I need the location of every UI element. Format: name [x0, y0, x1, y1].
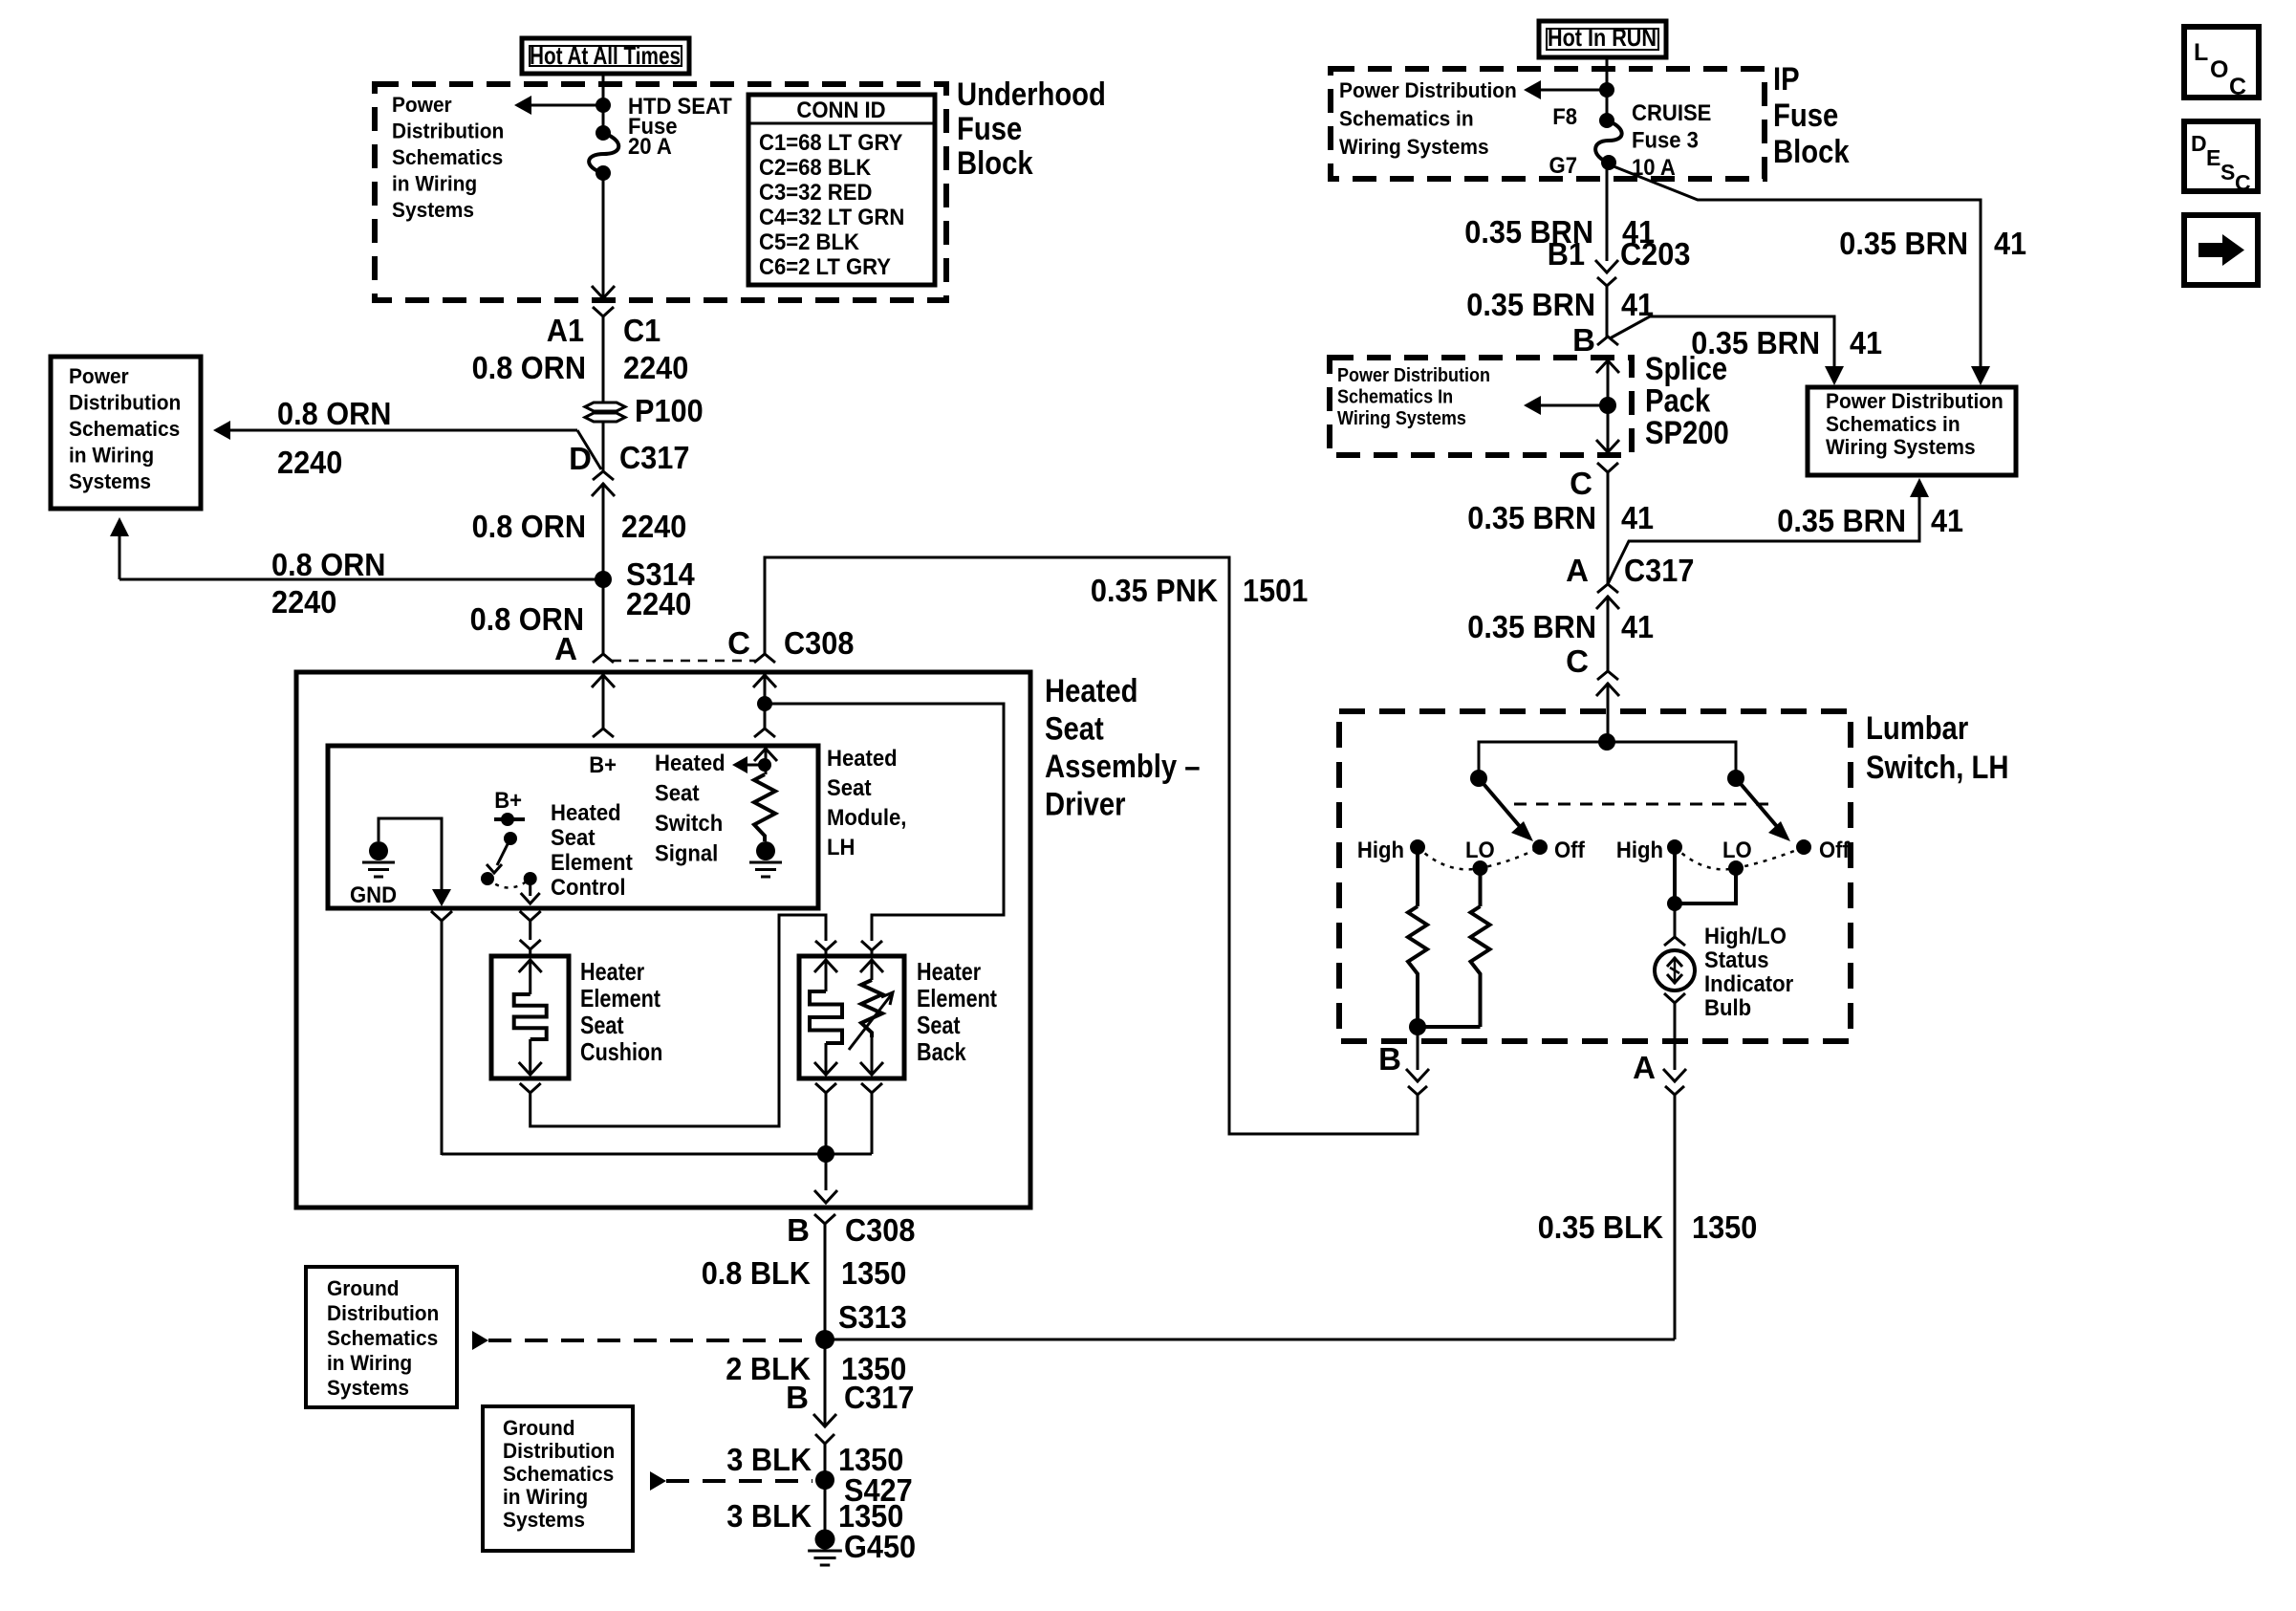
LO resistor [1479, 868, 1483, 906]
Underhood Fuse Block dashed box [375, 84, 946, 300]
connector C exit [1597, 463, 1618, 472]
splice S314 [595, 571, 612, 588]
svg-text:GND: GND [350, 882, 397, 908]
Heated Seat Assembly box [296, 672, 1030, 1208]
seat back heater element [814, 960, 837, 972]
splice P100 [585, 403, 625, 411]
Power Distribution box (right) [1808, 387, 2016, 475]
connector lumbar B [1406, 1069, 1429, 1081]
svg-text:Schematics in: Schematics in [1339, 107, 1474, 131]
LOC box [2184, 27, 2259, 98]
svg-text:0.8 ORN: 0.8 ORN [472, 509, 586, 544]
Ground Distribution box 2 [483, 1406, 633, 1551]
seat back outputs to return bus [815, 1083, 836, 1093]
svg-text:Ground: Ground [503, 1416, 575, 1440]
svg-text:High: High [1616, 838, 1663, 863]
connector C317 inline [593, 471, 614, 480]
svg-text:0.8 BLK: 0.8 BLK [702, 1255, 811, 1291]
svg-text:20 A: 20 A [628, 134, 672, 160]
svg-text:C3=32 RED: C3=32 RED [759, 180, 872, 206]
svg-text:Splice: Splice [1645, 351, 1727, 387]
wire S314 down to C308 [602, 579, 605, 654]
svg-text:B: B [1572, 322, 1595, 358]
svg-text:2240: 2240 [277, 445, 342, 480]
node return bus [817, 1145, 834, 1163]
svg-text:in Wiring: in Wiring [503, 1485, 588, 1509]
node (branch to power distribution) [596, 98, 611, 113]
svg-text:Fuse 3: Fuse 3 [1632, 128, 1699, 154]
svg-text:Underhood: Underhood [957, 76, 1106, 113]
svg-text:G450: G450 [844, 1529, 916, 1564]
High/LO Status Indicator Bulb [1655, 950, 1695, 991]
svg-text:LO: LO [1465, 838, 1495, 863]
module internal resistor [754, 774, 775, 841]
svg-text:Cushion: Cushion [580, 1037, 662, 1066]
IP Fuse Block dashed box [1331, 69, 1765, 179]
svg-text:Element: Element [551, 850, 633, 876]
svg-text:Hot In RUN: Hot In RUN [1548, 23, 1657, 52]
svg-text:Heated: Heated [1045, 673, 1138, 709]
svg-text:F8: F8 [1552, 104, 1577, 130]
arrow box [2184, 215, 2258, 285]
svg-text:Off: Off [1554, 838, 1586, 863]
svg-text:C4=32 LT GRN: C4=32 LT GRN [759, 205, 904, 230]
svg-text:Switch, LH: Switch, LH [1866, 750, 2009, 786]
svg-text:Back: Back [917, 1037, 966, 1066]
svg-text:0.35 BRN: 0.35 BRN [1839, 226, 1968, 261]
dashed link to S427 [650, 1471, 666, 1491]
svg-text:High: High [1357, 838, 1404, 863]
svg-text:1350: 1350 [1692, 1209, 1757, 1245]
return bus [442, 1153, 872, 1156]
wire 0.35 PNK 1501 [765, 557, 1418, 1134]
svg-text:0.8 ORN: 0.8 ORN [271, 547, 385, 582]
svg-text:Systems: Systems [69, 469, 151, 493]
svg-text:S313: S313 [838, 1299, 907, 1335]
svg-text:Seat: Seat [1045, 711, 1104, 748]
svg-text:LH: LH [827, 835, 855, 860]
svg-text:B: B [787, 1212, 810, 1248]
node branch left [1599, 82, 1614, 98]
svg-text:Wiring Systems: Wiring Systems [1339, 135, 1489, 159]
svg-text:B+: B+ [494, 788, 522, 814]
gang dashed link [1514, 803, 1774, 806]
svg-text:L: L [2194, 39, 2208, 66]
svg-text:C: C [1566, 643, 1589, 679]
svg-text:Distribution: Distribution [503, 1439, 615, 1463]
svg-text:2240: 2240 [621, 509, 686, 544]
svg-text:A: A [1633, 1050, 1656, 1085]
svg-text:Schematics in: Schematics in [1826, 412, 1960, 436]
svg-text:Signal: Signal [655, 841, 718, 867]
connector C317 inline (right) [1597, 584, 1618, 593]
svg-text:B: B [1378, 1041, 1401, 1077]
svg-text:C: C [727, 625, 750, 661]
svg-text:C317: C317 [844, 1380, 914, 1415]
cushion to seat back series link [520, 1083, 541, 1093]
svg-text:Schematics: Schematics [392, 145, 503, 169]
svg-text:E: E [2206, 145, 2220, 170]
wire B exit [1417, 1027, 1419, 1070]
right switch pivot [1727, 770, 1744, 787]
svg-text:Block: Block [957, 145, 1033, 182]
wire from Hot At All Times into fuse [602, 74, 605, 131]
fuse CRUISE Fuse 3 10A [1599, 113, 1614, 128]
svg-text:Seat: Seat [551, 825, 596, 851]
svg-text:Heater: Heater [917, 957, 981, 986]
svg-text:0.35 BLK: 0.35 BLK [1538, 1209, 1663, 1245]
wire P100 to C317 [602, 422, 605, 471]
svg-text:1501: 1501 [1243, 573, 1308, 608]
svg-text:Schematics: Schematics [69, 417, 180, 441]
module internal ground [756, 841, 775, 860]
wire branch left with arrow [531, 104, 603, 107]
svg-text:in Wiring: in Wiring [392, 172, 477, 196]
Power Distribution box (left) [51, 357, 201, 509]
svg-text:Power Distribution: Power Distribution [1339, 78, 1517, 102]
svg-text:Power Distribution: Power Distribution [1337, 365, 1490, 386]
svg-text:D: D [2191, 131, 2207, 156]
svg-text:Power Distribution: Power Distribution [1826, 389, 2004, 413]
fuse HTD SEAT 20A [596, 125, 611, 141]
svg-text:Indicator: Indicator [1704, 971, 1793, 997]
DESC box [2184, 121, 2258, 191]
svg-text:S: S [2220, 160, 2235, 185]
svg-text:C308: C308 [845, 1212, 915, 1248]
svg-text:Schematics: Schematics [327, 1326, 438, 1350]
svg-text:2240: 2240 [271, 584, 336, 620]
node branch to seat back feed [757, 696, 772, 711]
svg-text:2240: 2240 [623, 350, 688, 385]
svg-text:Seat: Seat [917, 1011, 961, 1039]
svg-text:41: 41 [1850, 325, 1882, 360]
svg-text:B: B [786, 1380, 809, 1415]
wire S313 to lumbar A [825, 1339, 1675, 1341]
svg-text:Schematics: Schematics [503, 1462, 614, 1486]
svg-text:B+: B+ [589, 752, 617, 778]
svg-text:Control: Control [551, 875, 626, 901]
svg-text:C2=68 BLK: C2=68 BLK [759, 155, 872, 181]
svg-text:SP200: SP200 [1645, 415, 1729, 451]
svg-text:Seat: Seat [580, 1011, 624, 1039]
connectors into seat back element [815, 941, 836, 950]
wire G7 down to C203 [1606, 164, 1609, 261]
svg-text:Ground: Ground [327, 1276, 400, 1300]
svg-text:Block: Block [1773, 134, 1850, 170]
svg-text:Distribution: Distribution [69, 391, 181, 415]
CONN ID table [748, 95, 935, 285]
connector lumbar A [1663, 1069, 1686, 1081]
splice S313 [815, 1330, 834, 1349]
svg-text:3 BLK: 3 BLK [726, 1442, 812, 1477]
svg-text:Systems: Systems [327, 1376, 409, 1400]
lumbar feed rail [1479, 742, 1736, 778]
wire S314 branch left to power dist [119, 578, 603, 581]
Ground Distribution box 1 [306, 1267, 457, 1407]
node resistor join [1409, 1018, 1426, 1035]
svg-text:O: O [2210, 56, 2228, 83]
svg-text:0.35 BRN: 0.35 BRN [1467, 609, 1596, 644]
svg-text:D: D [569, 441, 592, 476]
svg-text:Switch: Switch [655, 811, 723, 837]
svg-text:C317: C317 [619, 440, 689, 475]
svg-text:Seat: Seat [655, 781, 700, 807]
wire S313 down [824, 1339, 827, 1426]
splice S427 [815, 1470, 834, 1490]
svg-text:Element: Element [917, 984, 997, 1012]
svg-text:C1: C1 [623, 313, 661, 348]
svg-text:Systems: Systems [503, 1508, 585, 1532]
svg-text:41: 41 [1994, 226, 2026, 261]
svg-text:0.8 ORN: 0.8 ORN [472, 350, 586, 385]
svg-text:Systems: Systems [392, 198, 474, 222]
svg-text:CONN ID: CONN ID [796, 98, 885, 123]
svg-text:C6=2 LT GRY: C6=2 LT GRY [759, 254, 891, 280]
svg-text:Wiring Systems: Wiring Systems [1337, 408, 1466, 429]
node SP200 [1599, 397, 1616, 414]
connector into cushion element [520, 940, 541, 949]
svg-text:41: 41 [1621, 500, 1654, 535]
svg-text:C: C [2235, 170, 2251, 195]
left switch pivot [1470, 770, 1487, 787]
svg-text:C5=2 BLK: C5=2 BLK [759, 229, 860, 255]
svg-text:0.35 BRN: 0.35 BRN [1467, 500, 1596, 535]
module output pins [431, 911, 452, 921]
branch A-C317 to right power dist [1608, 490, 1919, 584]
Heater Element Seat Back box [799, 956, 904, 1078]
bulb output [1664, 993, 1685, 1003]
C308 dashed connector line [612, 660, 757, 663]
connector B female + branch right [1597, 337, 1618, 345]
svg-text:Heated: Heated [655, 751, 726, 776]
branch to power dist (D pin) [213, 421, 230, 440]
svg-text:Off: Off [1819, 838, 1851, 863]
svg-text:in Wiring: in Wiring [69, 444, 154, 468]
svg-text:Fuse: Fuse [957, 111, 1022, 147]
svg-text:41: 41 [1621, 609, 1654, 644]
Heated Seat Module box [328, 746, 818, 908]
svg-text:CRUISE: CRUISE [1632, 100, 1711, 126]
svg-text:A: A [1566, 553, 1589, 588]
wire A pin into module [592, 675, 615, 687]
svg-text:Status: Status [1704, 947, 1769, 973]
svg-text:Seat: Seat [827, 775, 872, 801]
svg-text:Power: Power [69, 364, 129, 388]
svg-text:C1=68 LT GRY: C1=68 LT GRY [759, 130, 902, 156]
svg-text:Distribution: Distribution [392, 120, 504, 143]
heated seat switch signal arrow [754, 749, 777, 761]
svg-text:41: 41 [1931, 503, 1963, 538]
svg-text:0.35 BRN: 0.35 BRN [1466, 287, 1595, 322]
wire fuse down to box edge [602, 173, 605, 298]
svg-text:Fuse: Fuse [1773, 98, 1838, 134]
svg-text:Heated: Heated [827, 746, 898, 772]
node lumbar feed [1598, 733, 1615, 751]
wire C pin into module [753, 675, 776, 687]
svg-text:0.35 BRN: 0.35 BRN [1777, 503, 1906, 538]
svg-text:Bulb: Bulb [1704, 995, 1751, 1021]
splice pack entry arrow [1596, 360, 1619, 373]
B+ switch (element control) [494, 817, 525, 821]
right switch output L [1673, 847, 1677, 903]
connector C308 female C [754, 654, 775, 663]
branch G7 to right power dist [1609, 164, 1981, 368]
svg-text:IP: IP [1773, 61, 1800, 98]
svg-text:1350: 1350 [841, 1255, 906, 1291]
connector C317 B exit [813, 1414, 836, 1426]
dashed link to S313 [472, 1331, 488, 1350]
connector C lumbar entry [1597, 671, 1618, 680]
cushion element [519, 960, 542, 972]
svg-text:in Wiring: in Wiring [327, 1351, 412, 1375]
connector C308 B exit [814, 1214, 835, 1224]
svg-text:C: C [2229, 74, 2246, 100]
svg-text:Driver: Driver [1045, 787, 1126, 823]
svg-text:P100: P100 [635, 393, 704, 428]
svg-text:A: A [554, 631, 577, 666]
connector C1 female [593, 307, 614, 316]
svg-text:G7: G7 [1549, 153, 1578, 179]
svg-text:C308: C308 [784, 625, 854, 661]
svg-text:0.8 ORN: 0.8 ORN [277, 396, 391, 431]
Hot At All Times box [522, 38, 689, 74]
connector C308 female A [593, 654, 614, 663]
svg-text:A1: A1 [547, 313, 584, 348]
wire branch right and down [765, 704, 1004, 941]
svg-text:2240: 2240 [626, 586, 691, 621]
svg-text:C: C [1570, 466, 1592, 501]
connector C203 inline [1595, 260, 1618, 272]
svg-text:3 BLK: 3 BLK [726, 1498, 812, 1534]
svg-text:Pack: Pack [1645, 383, 1710, 420]
ground G450 [815, 1530, 835, 1550]
wire to bulb [1674, 903, 1677, 937]
svg-text:Schematics In: Schematics In [1337, 387, 1453, 408]
wire Hot In RUN to fuse [1606, 57, 1609, 119]
svg-text:Heater: Heater [580, 957, 644, 986]
svg-text:Wiring Systems: Wiring Systems [1826, 435, 1976, 459]
svg-text:Heated: Heated [551, 800, 621, 826]
svg-text:Hot At All Times: Hot At All Times [530, 41, 681, 70]
svg-text:C203: C203 [1620, 236, 1690, 272]
svg-text:B1: B1 [1548, 236, 1585, 272]
svg-text:High/LO: High/LO [1704, 924, 1787, 949]
svg-text:C317: C317 [1624, 553, 1694, 588]
svg-text:0.35 PNK: 0.35 PNK [1091, 573, 1218, 608]
svg-text:Element: Element [580, 984, 661, 1012]
Splice Pack SP200 dashed box [1330, 358, 1632, 455]
svg-text:Lumbar: Lumbar [1866, 710, 1968, 747]
Lumbar Switch dashed box [1339, 711, 1851, 1041]
svg-text:LO: LO [1722, 838, 1752, 863]
svg-text:Assembly –: Assembly – [1045, 749, 1201, 785]
wire return to B pin [825, 1154, 828, 1190]
Hot In RUN box [1539, 21, 1666, 57]
seat back variable element [860, 960, 883, 972]
svg-text:Module,: Module, [827, 805, 906, 831]
module GND pin circuit [369, 841, 388, 860]
wire to G450 [824, 1480, 827, 1537]
svg-text:Distribution: Distribution [327, 1301, 439, 1325]
High resistor [1416, 847, 1419, 906]
Heater Element Seat Cushion box [491, 956, 569, 1078]
svg-text:Power: Power [392, 93, 452, 117]
